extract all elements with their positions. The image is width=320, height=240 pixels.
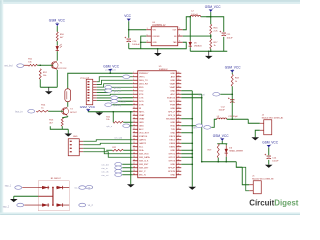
capacitor C12: [219, 97, 235, 111]
svg-text:GSM_VCC: GSM_VCC: [262, 140, 278, 144]
svg-text:50: 50: [177, 107, 179, 109]
svg-text:sim_det: sim_det: [101, 163, 109, 166]
svg-text:KBR0: KBR0: [169, 143, 175, 145]
power label GSM_VCC (left of U5): [80, 105, 96, 112]
port gsm_rx: [105, 89, 122, 93]
svg-text:15: 15: [133, 121, 135, 123]
ground GND (T2/SIM): [64, 129, 78, 138]
svg-text:KBR1: KBR1: [169, 147, 175, 149]
svg-text:Module Wire (GSM_An: Module Wire (GSM_An: [262, 116, 284, 119]
svg-text:SPK2P: SPK2P: [168, 168, 176, 170]
svg-text:sup_1: sup_1: [5, 185, 12, 187]
transistor T1 BC547: [51, 61, 67, 70]
svg-text:buz_in: buz_in: [15, 110, 23, 113]
wire: [56, 51, 58, 60]
bridge B1 DB107: [38, 178, 69, 211]
svg-text:30: 30: [133, 173, 135, 175]
IC U5 SIM800: [133, 66, 182, 178]
wires (prog header fan-out): [97, 77, 133, 102]
svg-text:ADC: ADC: [171, 93, 176, 96]
svg-text:STATUS: STATUS: [167, 97, 176, 100]
svg-text:16: 16: [133, 124, 135, 126]
svg-text:40: 40: [177, 142, 179, 144]
svg-text:GPIO1: GPIO1: [168, 154, 175, 156]
inductor L3: [217, 116, 227, 119]
svg-text:SIM_RST: SIM_RST: [139, 164, 149, 166]
wires (sim to U5): [83, 140, 133, 158]
ground (regulator): [154, 48, 162, 56]
svg-text:32: 32: [177, 170, 179, 172]
svg-text:57: 57: [177, 82, 179, 84]
wire (T1 emitter): [56, 70, 58, 87]
svg-text:10: 10: [133, 103, 135, 105]
resistor R22: [106, 147, 133, 151]
svg-text:ri_out: ri_out: [120, 100, 126, 103]
svg-text:Module Wire (GSM_MI: Module Wire (GSM_MI: [252, 177, 274, 180]
wire (TAB): [158, 42, 187, 49]
svg-text:38: 38: [177, 149, 179, 151]
svg-text:49: 49: [177, 110, 179, 112]
svg-text:ANT: ANT: [171, 76, 176, 79]
svg-text:NETL: NETL: [170, 101, 176, 103]
svg-text:RXD: RXD: [139, 87, 144, 89]
svg-text:MIC_N: MIC_N: [139, 175, 146, 177]
svg-text:BC547: BC547: [70, 112, 77, 114]
wire: [255, 130, 260, 137]
svg-text:48: 48: [177, 114, 179, 116]
svg-text:25: 25: [133, 156, 135, 158]
svg-text:6: 6: [179, 41, 180, 43]
svg-text:pwrkey: pwrkey: [114, 104, 122, 107]
capacitor C11: [211, 17, 234, 52]
svg-text:56: 56: [177, 86, 179, 88]
svg-text:SIM_CLK: SIM_CLK: [139, 161, 149, 163]
port vo_2: [79, 203, 94, 207]
svg-text:GSM_VCC: GSM_VCC: [103, 64, 119, 68]
svg-text:GND: GND: [170, 91, 175, 93]
svg-text:GND: GND: [170, 80, 175, 82]
port sim_det: [101, 162, 133, 166]
svg-text:44: 44: [177, 128, 179, 130]
svg-text:vo_1: vo_1: [88, 188, 94, 190]
power label GSM_VCC (reg out): [205, 5, 221, 12]
svg-text:PWR: PWR: [170, 105, 176, 107]
svg-text:100uH: 100uH: [191, 14, 198, 16]
wire: [242, 167, 249, 185]
capacitor C10: [125, 37, 141, 46]
svg-text:GSM_VCC: GSM_VCC: [213, 134, 229, 138]
svg-text:51: 51: [177, 103, 179, 105]
svg-text:PWRKEY: PWRKEY: [139, 73, 149, 75]
svg-text:net_led: net_led: [4, 65, 13, 68]
svg-text:35: 35: [177, 159, 179, 161]
svg-text:17: 17: [133, 128, 135, 130]
ground (J4): [251, 137, 259, 140]
LED D4: [56, 44, 63, 51]
svg-text:4: 4: [179, 34, 180, 36]
port sim_io: [101, 166, 133, 170]
power label GSM_VCC (above T2): [103, 64, 119, 71]
svg-text:31: 31: [177, 173, 179, 175]
svg-text:CTS: CTS: [139, 98, 144, 100]
svg-text:sim_io: sim_io: [101, 168, 108, 170]
wire: [231, 73, 233, 75]
svg-text:CírcuitDigest: CírcuitDigest: [249, 198, 298, 207]
svg-text:3: 3: [147, 41, 148, 43]
svg-text:1000uF: 1000uF: [132, 44, 140, 46]
svg-text:2: 2: [133, 75, 134, 77]
ground: [45, 87, 53, 94]
svg-text:VBAT: VBAT: [139, 114, 145, 117]
svg-text:GSM_VCC: GSM_VCC: [225, 66, 241, 70]
svg-text:1N5824: 1N5824: [194, 45, 202, 47]
svg-text:BC547-TO92: BC547-TO92: [54, 68, 67, 70]
port dtr_in: [111, 96, 133, 100]
port gsm_ant: [193, 126, 211, 130]
svg-text:59: 59: [177, 75, 179, 77]
wire (V1 rail): [181, 91, 193, 187]
resistor R16: [210, 24, 219, 34]
svg-text:DTR: DTR: [139, 105, 144, 107]
svg-text:14: 14: [133, 117, 135, 119]
wire: [61, 126, 63, 129]
svg-text:42: 42: [177, 135, 179, 137]
wire (ON/OFF+GND tie): [141, 36, 147, 49]
svg-text:GND: GND: [153, 42, 158, 44]
wire: [248, 119, 260, 123]
svg-text:1: 1: [133, 72, 134, 74]
svg-text:VCC: VCC: [124, 14, 131, 18]
svg-text:VRTC: VRTC: [139, 77, 145, 79]
svg-text:8: 8: [133, 96, 134, 98]
svg-text:20: 20: [133, 138, 135, 140]
wire (OUT node): [183, 17, 191, 30]
wire: [236, 167, 249, 191]
svg-text:SIM_VDD: SIM_VDD: [139, 154, 149, 156]
power label GSM_VCC (R18): [225, 66, 241, 73]
resistor R12: [39, 69, 47, 80]
svg-text:54: 54: [177, 93, 179, 95]
svg-text:100uF: 100uF: [219, 110, 226, 112]
svg-text:2: 2: [179, 28, 180, 30]
port ri_out: [111, 99, 133, 103]
svg-text:45: 45: [177, 124, 179, 126]
svg-text:GPIO2: GPIO2: [168, 157, 175, 159]
resistor R15: [49, 118, 63, 127]
svg-text:GSM_VCC: GSM_VCC: [49, 19, 66, 23]
wire (FB): [210, 34, 212, 39]
transistor T2 BC547: [62, 107, 78, 115]
svg-text:41: 41: [177, 138, 179, 140]
ground (left of U5): [95, 112, 103, 116]
svg-text:VBAT: VBAT: [170, 83, 176, 86]
svg-text:GND: GND: [170, 73, 175, 75]
svg-text:SIM_DET: SIM_DET: [139, 168, 149, 170]
CircuitDigest logo: [249, 198, 298, 207]
port buz_in: [15, 109, 35, 113]
svg-text:gsm_rx: gsm_rx: [114, 90, 122, 93]
svg-text:43: 43: [177, 131, 179, 133]
svg-text:7: 7: [133, 93, 134, 95]
wire (T2 emitter): [67, 115, 69, 118]
svg-text:NETL: NETL: [139, 112, 145, 114]
wire (V2 rail): [181, 94, 202, 162]
port sup_1: [5, 185, 39, 189]
svg-text:60: 60: [177, 72, 179, 74]
schematic frame border top: [0, 0, 300, 1]
svg-text:gsm_tx: gsm_tx: [114, 86, 122, 89]
svg-text:34: 34: [177, 163, 179, 165]
wire: [56, 41, 58, 45]
svg-text:VDD_EXT: VDD_EXT: [139, 133, 150, 135]
wire (bottom rail): [190, 50, 227, 52]
svg-text:GND: GND: [170, 122, 175, 124]
schematic frame border bottom: [0, 212, 300, 214]
svg-text:dtr: dtr: [120, 97, 123, 100]
svg-text:prog_pad: prog_pad: [80, 76, 90, 79]
svg-text:SIM_DATA: SIM_DATA: [139, 156, 150, 159]
svg-text:ant: ant: [193, 126, 197, 129]
svg-text:SPK_P: SPK_P: [168, 112, 176, 114]
port sup_2: [3, 203, 39, 208]
resistor R21: [106, 112, 133, 123]
svg-text:9: 9: [133, 100, 134, 102]
svg-text:100uF: 100uF: [226, 37, 233, 39]
wire: [128, 21, 130, 38]
inductor L2: [190, 11, 201, 17]
svg-text:DBG_RX: DBG_RX: [139, 84, 149, 86]
svg-text:prog_pad1: prog_pad1: [105, 69, 116, 72]
regulator U4 LM2596S-12: [146, 22, 183, 46]
svg-text:GND: GND: [170, 150, 175, 152]
diode D5 1N5824: [189, 16, 211, 51]
svg-text:TXD: TXD: [171, 129, 176, 131]
svg-text:6: 6: [133, 89, 134, 91]
svg-text:GND: GND: [73, 136, 78, 138]
svg-text:SPK2N: SPK2N: [168, 171, 176, 173]
ground (bridge): [10, 196, 18, 202]
svg-text:GSM_VCC: GSM_VCC: [205, 5, 221, 9]
svg-text:1: 1: [147, 28, 148, 30]
svg-text:DCD: DCD: [139, 101, 144, 103]
ground (C14): [265, 165, 273, 168]
svg-text:46: 46: [177, 121, 179, 123]
port vo_1: [79, 186, 94, 190]
svg-text:KBC1: KBC1: [169, 140, 175, 142]
wire: [227, 118, 249, 120]
svg-text:MIC_P: MIC_P: [139, 171, 146, 173]
svg-text:GPIO3: GPIO3: [168, 161, 175, 163]
svg-text:22: 22: [133, 145, 135, 147]
wire: [268, 148, 270, 156]
svg-text:ON/OFF: ON/OFF: [153, 36, 161, 38]
resistor R18: [231, 74, 239, 86]
wire: [211, 119, 217, 127]
port net_led: [4, 64, 28, 68]
svg-text:GND: GND: [170, 133, 175, 135]
svg-text:SMAJ_ZENER: SMAJ_ZENER: [229, 150, 243, 153]
svg-text:DBG_TX: DBG_TX: [139, 80, 148, 82]
sim holder U6: [68, 139, 83, 156]
wire: [56, 26, 58, 32]
svg-text:18: 18: [133, 131, 135, 133]
svg-text:5: 5: [147, 34, 148, 36]
svg-text:sim_clk: sim_clk: [101, 171, 109, 173]
svg-text:26: 26: [133, 159, 135, 161]
svg-text:MICBIAS: MICBIAS: [166, 118, 176, 121]
capacitor C14: [265, 154, 280, 163]
port sim_rst: [101, 173, 133, 177]
svg-text:GND: GND: [139, 122, 144, 124]
resistor R19: [208, 144, 220, 158]
ground (rail): [205, 50, 213, 59]
svg-text:27: 27: [133, 163, 135, 165]
port gsm_tx: [105, 85, 122, 89]
port pwrkey_in: [105, 103, 133, 107]
svg-text:SDA: SDA: [139, 149, 144, 152]
svg-text:UART2: UART2: [139, 142, 147, 145]
header J4 Module Wire (GSM_Ant): [260, 114, 284, 134]
port sim_clk: [101, 169, 133, 173]
svg-text:GND: GND: [170, 175, 175, 177]
svg-text:VBAT: VBAT: [170, 86, 176, 89]
svg-text:11: 11: [133, 107, 135, 109]
svg-text:UART1: UART1: [139, 139, 147, 142]
svg-text:GSM_VCC: GSM_VCC: [80, 105, 96, 109]
svg-text:GND: GND: [170, 164, 175, 166]
svg-text:KBC0: KBC0: [169, 136, 175, 138]
svg-text:B1 DB107: B1 DB107: [51, 178, 62, 180]
svg-text:GND: GND: [170, 108, 175, 110]
power label GSM_VCC (TVS): [213, 134, 229, 141]
wire: [236, 162, 242, 168]
svg-text:33: 33: [177, 166, 179, 168]
wire: [210, 49, 212, 52]
wire (T1 base): [37, 64, 53, 66]
buzzer LS1: [65, 89, 71, 102]
wire: [88, 111, 133, 113]
svg-text:37: 37: [177, 152, 179, 154]
svg-text:36: 36: [177, 156, 179, 158]
ground (U5 bottom left): [127, 184, 135, 187]
svg-text:12: 12: [133, 110, 135, 112]
svg-text:28: 28: [133, 166, 135, 168]
wire (T2 base): [48, 110, 63, 112]
svg-text:52: 52: [177, 100, 179, 102]
svg-text:24: 24: [133, 152, 135, 154]
resistor R11: [28, 59, 37, 67]
ground (V1): [188, 187, 196, 190]
resistor R10: [56, 32, 64, 42]
resistor R17: [210, 39, 218, 49]
port spk_n: [106, 124, 133, 128]
port mic_in: [74, 185, 93, 189]
wire: [210, 12, 212, 24]
svg-text:23: 23: [133, 149, 135, 151]
power label GSM_VCC (top-left): [49, 19, 66, 27]
svg-text:LM2596S-12: LM2596S-12: [152, 25, 166, 27]
wire: [221, 141, 223, 144]
svg-text:RXD: RXD: [171, 126, 176, 128]
header J5 Module Wire (GSM_MIC): [249, 175, 274, 193]
port net_stat: [198, 92, 233, 96]
svg-text:net_st: net_st: [198, 93, 205, 96]
svg-text:3: 3: [133, 79, 134, 81]
svg-text:13: 13: [133, 114, 135, 116]
svg-text:4: 4: [133, 82, 134, 84]
svg-text:VBAT: VBAT: [139, 118, 145, 121]
svg-text:21: 21: [133, 142, 135, 144]
svg-text:STATUS: STATUS: [139, 135, 148, 138]
svg-text:19: 19: [133, 135, 135, 137]
port bat_in: [181, 124, 209, 128]
wire: [39, 79, 41, 87]
wire: [231, 86, 233, 119]
svg-text:sim_rst: sim_rst: [101, 174, 108, 177]
connector JP1 (programming header): [80, 76, 97, 105]
wire: [268, 160, 270, 165]
svg-text:SPK_N: SPK_N: [168, 115, 176, 117]
svg-text:53: 53: [177, 96, 179, 98]
wire: [68, 73, 133, 89]
svg-text:spk_n: spk_n: [106, 126, 113, 128]
wire (gnd net riser): [130, 112, 132, 185]
svg-text:39: 39: [177, 145, 179, 147]
wire: [14, 195, 39, 197]
svg-text:5: 5: [133, 86, 134, 88]
schematic frame border left: [0, 0, 1, 215]
wire (TVS bottom rail): [202, 161, 237, 163]
svg-text:sup_2: sup_2: [3, 207, 10, 209]
port prog_pad1: [123, 75, 130, 79]
diode D6 SMAJ ZENER: [225, 144, 244, 162]
svg-text:47: 47: [177, 117, 179, 119]
svg-text:GND: GND: [139, 126, 144, 128]
svg-text:55: 55: [177, 89, 179, 91]
resistor R14: [36, 104, 48, 112]
wire: [128, 43, 130, 49]
svg-text:29: 29: [133, 170, 135, 172]
svg-text:TXD: TXD: [139, 91, 144, 93]
power label VCC: [124, 14, 131, 21]
svg-text:sim_vdd: sim_vdd: [114, 138, 123, 140]
svg-text:100nF: 100nF: [272, 160, 279, 162]
svg-text:RTS: RTS: [139, 94, 144, 96]
svg-text:ADC: ADC: [139, 128, 144, 131]
svg-text:C13 33pF: C13 33pF: [228, 116, 238, 118]
svg-text:58: 58: [177, 79, 179, 81]
wire: [67, 102, 69, 107]
svg-text:vo_2: vo_2: [88, 205, 94, 207]
power label GSM_VCC (C14): [262, 140, 278, 147]
